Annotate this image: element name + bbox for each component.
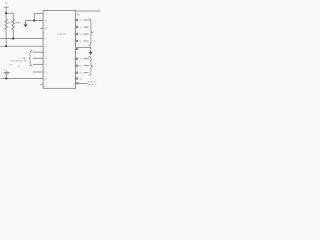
- svg-text:9: 9: [74, 79, 75, 81]
- svg-text:17: 17: [44, 85, 46, 87]
- svg-text:13: 13: [44, 58, 46, 60]
- svg-text:5: 5: [74, 49, 75, 51]
- svg-text:7: 7: [74, 66, 75, 68]
- svg-text:SELECT: SELECT: [88, 84, 97, 86]
- svg-text:24: 24: [44, 14, 46, 16]
- svg-text:4: 4: [74, 41, 75, 43]
- svg-text:11: 11: [44, 72, 46, 74]
- svg-text:10: 10: [18, 66, 20, 68]
- svg-text:1: 1: [74, 20, 75, 22]
- svg-text:2: 2: [74, 27, 75, 29]
- svg-text:50/60 Hz: 50/60 Hz: [88, 82, 96, 84]
- svg-text:8: 8: [74, 73, 75, 75]
- svg-text:MHZ SELECT IN: MHZ SELECT IN: [10, 60, 26, 62]
- svg-text:15: 15: [44, 39, 46, 41]
- svg-text:14: 14: [44, 64, 46, 66]
- svg-text:23: 23: [44, 28, 46, 30]
- svg-text:16: 16: [44, 46, 46, 48]
- svg-text:25: 25: [44, 21, 46, 23]
- svg-text:18: 18: [44, 78, 46, 80]
- svg-text:6: 6: [74, 59, 75, 61]
- svg-text:ICM7213: ICM7213: [57, 34, 67, 36]
- svg-text:3: 3: [74, 34, 75, 36]
- svg-text:10M: 10M: [8, 22, 12, 24]
- svg-text:10: 10: [73, 83, 75, 85]
- svg-text:V+: V+: [5, 1, 9, 5]
- svg-text:12: 12: [44, 52, 46, 54]
